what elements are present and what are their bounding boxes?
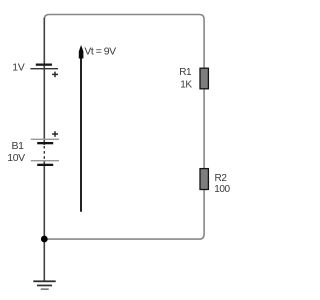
svg-text:R2: R2 bbox=[215, 173, 228, 184]
node: junction dot at bottom left bbox=[41, 236, 48, 243]
wire: gray loop (top, right side, bottom) bbox=[44, 15, 204, 240]
svg-text:1K: 1K bbox=[180, 80, 192, 91]
battery B1 cell2 thick negative plate bbox=[37, 164, 53, 166]
arrow Vt: vertical line bbox=[80, 51, 82, 212]
wire: left vertical black wire (battery branch, upper solid part) bbox=[43, 18, 45, 145]
ground: middle bar bbox=[37, 285, 52, 287]
arrow Vt: arrowhead bbox=[79, 45, 84, 59]
ground: bottom bar bbox=[41, 288, 49, 290]
svg-text:R1: R1 bbox=[179, 67, 192, 78]
svg-text:B1: B1 bbox=[12, 140, 25, 152]
battery V1 thin positive plate bbox=[30, 68, 58, 69]
svg-text:100: 100 bbox=[214, 184, 230, 195]
svg-text:Vt = 9V: Vt = 9V bbox=[84, 46, 116, 58]
ground: top bar bbox=[33, 280, 55, 282]
battery B1 inter-cell dashed wire bbox=[43, 146, 45, 160]
battery B1 cell2 thin positive plate bbox=[31, 160, 59, 161]
svg-text:1V: 1V bbox=[12, 62, 24, 74]
resistor R2 body bbox=[200, 169, 208, 190]
battery V1 plus sign bbox=[52, 72, 58, 78]
battery V1 thick negative plate bbox=[36, 64, 52, 66]
svg-text:10V: 10V bbox=[7, 152, 25, 164]
resistor R1 body bbox=[200, 68, 208, 89]
wire: left vertical black wire (lower solid part, to ground) bbox=[43, 160, 45, 280]
battery B1 cell1 thin positive plate bbox=[31, 139, 59, 140]
battery B1 cell1 thick negative plate bbox=[37, 142, 53, 144]
battery B1 plus sign bbox=[52, 131, 58, 137]
